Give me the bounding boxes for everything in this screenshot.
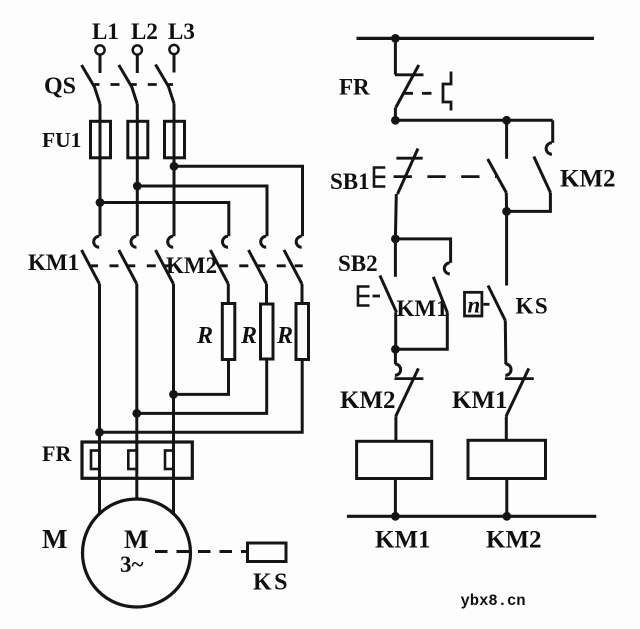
- terminal L3: [168, 19, 195, 54]
- svg-text:SB1: SB1: [330, 169, 370, 194]
- resistor R2: [240, 304, 273, 359]
- wire QS2 to fuse: [136, 104, 139, 158]
- motor M 3~: [83, 499, 191, 607]
- svg-text:R: R: [196, 323, 213, 349]
- wire phase1 fuse to KM1 contact: [99, 158, 102, 237]
- contactor KM2 main contact pole1: [210, 236, 228, 284]
- terminal L2: [131, 19, 158, 55]
- svg-text:R: R: [276, 323, 293, 349]
- svg-text:KM2: KM2: [560, 166, 616, 193]
- wire tap phase3 to KM2 pole3: [174, 166, 303, 236]
- QS linkage dashed line: [93, 83, 174, 86]
- wire bus to FR contact: [394, 38, 397, 74]
- fuse FU1 phase 2: [128, 121, 148, 158]
- node bottom bus right: [502, 512, 511, 521]
- thermal relay FR box: [82, 442, 192, 478]
- wire FR to motor phase1: [98, 478, 101, 515]
- wire FR to motor phase3: [172, 478, 175, 515]
- contact KM1 NC interlock: [505, 364, 534, 441]
- node mid bus right: [502, 116, 511, 125]
- fuse FU1 phase 3: [165, 121, 185, 158]
- button SB1 NO contact: [488, 120, 507, 211]
- node SB2 top: [391, 235, 400, 244]
- wire R2 bottom to phase2: [137, 359, 267, 413]
- KS dashed link: [484, 303, 490, 306]
- SB2 dashed link: [373, 295, 381, 298]
- KM1 linkage dashed line: [90, 264, 173, 267]
- wire coil KM1 to bottom bus: [394, 479, 397, 517]
- switch QS pole 2: [119, 65, 138, 104]
- wire FR to motor phase2: [135, 478, 138, 500]
- coil KM2: [468, 440, 546, 478]
- wire tap phase1 to KM2 pole1: [100, 203, 229, 237]
- svg-text:KM2: KM2: [340, 387, 396, 414]
- wire phase3 fuse to KM1 contact: [173, 158, 176, 237]
- wire KM1 pole3 down to FR: [172, 284, 175, 478]
- contactor KM1 main contact pole2: [119, 236, 137, 284]
- FR NC contact: [395, 65, 424, 108]
- svg-text:KM2: KM2: [486, 527, 542, 554]
- wire R1 bottom to phase3: [174, 360, 229, 395]
- node below SB1 NO: [502, 207, 511, 216]
- wire QS3 to fuse: [173, 104, 176, 159]
- wire phase2 fuse to KM1 contact: [136, 158, 139, 237]
- SB1 actuator E: [374, 168, 385, 187]
- wire KM1 pole1 down to FR: [98, 284, 101, 478]
- node R2 phase2: [132, 409, 141, 418]
- resistor R3: [276, 304, 309, 360]
- svg-text:n: n: [468, 293, 481, 318]
- SB1 dashed linkage: [394, 175, 498, 178]
- speed switch KS NO contact: [488, 286, 506, 365]
- KM2 linkage dashed line: [220, 264, 303, 267]
- wire SB1NO node down to KS contact: [505, 211, 508, 285]
- FR heater element 2: [128, 451, 137, 470]
- contactor KM1 main contact pole1: [82, 236, 100, 284]
- switch QS pole 1: [82, 65, 101, 104]
- wire R3 bottom to phase1: [100, 360, 303, 433]
- svg-text:KS: KS: [516, 294, 550, 319]
- wire tap phase2 to KM2 pole2: [137, 186, 267, 236]
- svg-text:KS: KS: [253, 570, 290, 596]
- svg-text:R: R: [240, 323, 257, 349]
- node R1 phase3: [169, 390, 178, 399]
- wire coil KM2 to bottom bus: [505, 479, 508, 517]
- svg-text:L2: L2: [131, 19, 158, 44]
- svg-text:KM1: KM1: [397, 296, 448, 321]
- contact KM1 auxiliary NO self-hold: [395, 239, 450, 349]
- motor shaft dashed link to KS: [155, 550, 247, 553]
- svg-text:FR: FR: [339, 75, 370, 100]
- contact KM2 auxiliary NO: [507, 120, 553, 211]
- switch QS pole 3: [156, 65, 175, 104]
- wire KM2 pole2 to resistor: [265, 284, 268, 304]
- FR test symbol: [443, 72, 451, 111]
- button SB1 NC contact: [395, 149, 422, 239]
- svg-text:KM1: KM1: [28, 250, 79, 275]
- wire KM1 pole2 down to FR: [135, 284, 138, 478]
- wire KM2 pole1 to resistor: [227, 284, 230, 304]
- KS actuator n box: [465, 292, 482, 317]
- svg-text:L3: L3: [168, 19, 195, 44]
- terminal L1: [92, 19, 119, 55]
- node below SB2: [391, 345, 400, 354]
- FR heater element 1: [91, 451, 100, 470]
- svg-text:KM1: KM1: [375, 527, 431, 554]
- svg-text:KM2: KM2: [166, 253, 217, 278]
- node phase3 tap: [170, 162, 179, 171]
- svg-text:M: M: [124, 525, 149, 554]
- wire FR contact to mid bus: [394, 108, 397, 121]
- control circuit top bus: [357, 37, 595, 40]
- node bottom bus left: [391, 512, 400, 521]
- node mid bus left: [391, 116, 400, 125]
- contactor KM2 main contact pole2: [249, 236, 267, 284]
- svg-text:FU1: FU1: [42, 128, 81, 152]
- FR heater element 3: [165, 451, 174, 470]
- node top bus: [391, 34, 400, 43]
- resistor R1: [196, 304, 235, 360]
- contact KM2 NC interlock: [395, 349, 424, 441]
- wire L1 stub: [99, 55, 102, 73]
- SB2 actuator E: [358, 287, 370, 306]
- wire QS1 to fuse: [99, 104, 102, 158]
- node phase1 tap: [96, 198, 105, 207]
- svg-text:L1: L1: [92, 19, 119, 44]
- svg-text:ybx8.cn: ybx8.cn: [461, 592, 526, 610]
- fuse FU1 phase 1: [91, 121, 111, 158]
- button SB2 NO contact: [380, 239, 397, 349]
- speed switch KS body: [248, 543, 287, 562]
- wire L3 stub: [173, 55, 176, 73]
- node R3 phase1: [95, 428, 104, 437]
- coil KM1: [357, 441, 432, 478]
- svg-text:FR: FR: [42, 441, 72, 466]
- wire KM2 pole3 to resistor: [301, 284, 304, 304]
- svg-text:KM1: KM1: [452, 387, 508, 414]
- FR dashed link: [404, 92, 441, 95]
- control circuit bottom bus: [347, 515, 596, 518]
- wire L2 stub: [136, 55, 139, 73]
- svg-text:M: M: [42, 524, 67, 554]
- svg-text:3~: 3~: [120, 552, 144, 577]
- svg-text:SB2: SB2: [338, 251, 378, 276]
- svg-text:QS: QS: [44, 74, 76, 100]
- contactor KM2 main contact pole3: [284, 236, 302, 284]
- mid bus wire: [395, 119, 552, 122]
- contactor KM1 main contact pole3: [156, 236, 174, 284]
- node phase2 tap: [133, 182, 142, 191]
